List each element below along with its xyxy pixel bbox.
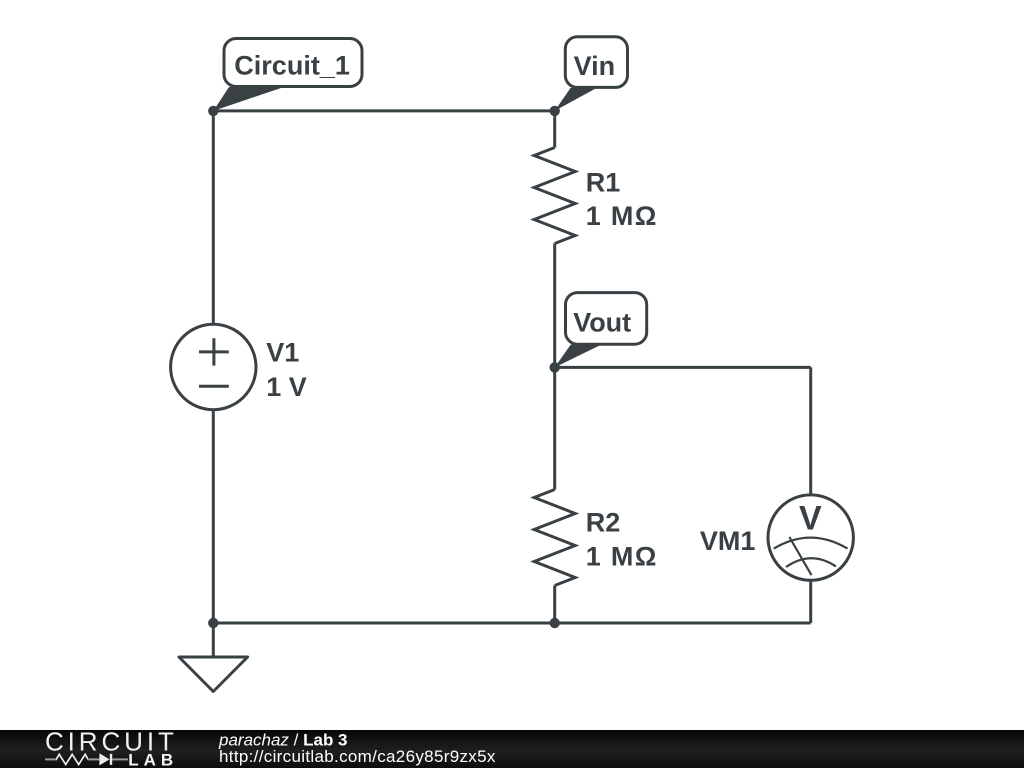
svg-text:Vin: Vin xyxy=(574,51,616,81)
wire voltmeter branch vertical lower xyxy=(809,580,812,623)
label R1 value xyxy=(586,168,658,232)
svg-text:V1: V1 xyxy=(266,338,299,368)
node label callout Circuit_1 xyxy=(213,39,362,111)
voltmeter VM1 xyxy=(768,495,853,580)
svg-text:1 MΩ: 1 MΩ xyxy=(586,542,658,572)
logo symbol resistor and diode xyxy=(45,754,128,765)
svg-text:LAB: LAB xyxy=(128,751,178,768)
resistor R1 xyxy=(534,111,575,368)
junction dot at ground rail left xyxy=(208,618,218,628)
svg-text:R1: R1 xyxy=(586,168,621,198)
wire left vertical upper (Circuit_1 node to V1 top) xyxy=(212,111,215,324)
svg-text:VM1: VM1 xyxy=(700,526,756,556)
svg-text:R2: R2 xyxy=(586,508,621,538)
junction dot at node Vin xyxy=(550,106,560,116)
svg-text:1 MΩ: 1 MΩ xyxy=(586,201,658,231)
node label callout Vin xyxy=(555,37,628,111)
svg-text:1 V: 1 V xyxy=(266,372,307,402)
wire bottom horizontal (ground rail) xyxy=(213,622,810,625)
svg-text:V: V xyxy=(799,499,822,537)
footer bar xyxy=(0,730,1024,768)
wire left vertical lower (V1 bottom to ground node) xyxy=(212,410,215,623)
node label callout Vout xyxy=(555,293,647,368)
svg-text:Vout: Vout xyxy=(573,307,631,337)
wire Vout horizontal to voltmeter branch xyxy=(555,366,811,369)
voltage source V1 xyxy=(171,324,256,409)
svg-text:http://circuitlab.com/ca26y85r: http://circuitlab.com/ca26y85r9zx5x xyxy=(219,747,496,766)
wire voltmeter branch vertical upper xyxy=(809,367,812,495)
label V1 value xyxy=(266,338,307,402)
junction dot at node Vout xyxy=(550,362,560,372)
junction dot at R2 bottom xyxy=(550,618,560,628)
wire top horizontal from node Circuit_1 to node Vin xyxy=(213,109,554,112)
label R2 value xyxy=(586,508,658,572)
resistor R2 xyxy=(534,367,575,623)
junction dot at node Circuit_1 xyxy=(208,106,218,116)
ground xyxy=(179,623,248,692)
svg-text:Circuit_1: Circuit_1 xyxy=(234,51,350,81)
